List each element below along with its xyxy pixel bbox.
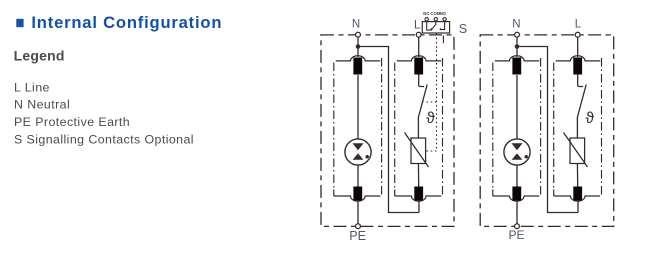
svg-text:N: N bbox=[352, 18, 360, 30]
svg-text:ϑ: ϑ bbox=[586, 110, 595, 127]
svg-text:S: S bbox=[459, 22, 467, 36]
svg-text:PE: PE bbox=[508, 228, 524, 242]
svg-text:PE Protective Earth: PE Protective Earth bbox=[14, 115, 130, 129]
svg-text:PE: PE bbox=[349, 229, 366, 243]
svg-text:Internal Configuration: Internal Configuration bbox=[31, 13, 222, 32]
svg-text:L: L bbox=[575, 19, 582, 31]
svg-text:S Signalling Contacts Optional: S Signalling Contacts Optional bbox=[14, 132, 194, 146]
svg-text:ϑ: ϑ bbox=[426, 110, 435, 127]
svg-text:L Line: L Line bbox=[14, 81, 50, 95]
svg-text:L: L bbox=[414, 17, 421, 31]
svg-text:NC: NC bbox=[423, 11, 429, 16]
svg-text:Legend: Legend bbox=[14, 48, 65, 64]
svg-text:N Neutral: N Neutral bbox=[14, 98, 70, 112]
svg-text:N: N bbox=[512, 18, 520, 30]
svg-text:NO: NO bbox=[440, 11, 447, 16]
